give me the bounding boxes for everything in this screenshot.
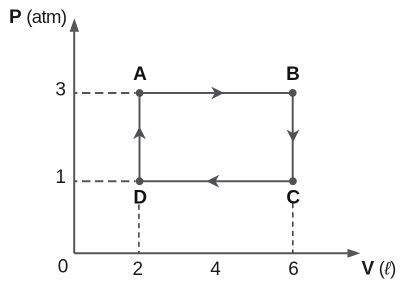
svg-text:P (atm): P (atm) <box>9 6 67 28</box>
svg-text:V (ℓ): V (ℓ) <box>362 259 396 280</box>
svg-text:A: A <box>133 64 147 85</box>
point A <box>136 89 144 97</box>
process line D to A <box>139 93 141 181</box>
svg-text:1: 1 <box>55 167 66 188</box>
svg-text:2: 2 <box>133 259 144 280</box>
process line C to D <box>140 180 293 182</box>
svg-text:3: 3 <box>55 80 66 101</box>
svg-text:C: C <box>286 188 300 209</box>
arrow A to B <box>211 87 224 100</box>
dashed guide V=2 <box>138 205 140 254</box>
svg-text:6: 6 <box>288 259 299 280</box>
point B <box>289 89 297 97</box>
point C <box>289 177 297 185</box>
svg-text:D: D <box>133 188 147 209</box>
svg-text:4: 4 <box>210 259 221 280</box>
point D <box>136 177 144 185</box>
y-axis <box>73 29 75 253</box>
svg-text:B: B <box>286 64 300 85</box>
process line B to C <box>292 93 294 181</box>
arrow C to D <box>207 175 220 188</box>
dashed guide P=3 <box>74 92 135 94</box>
dashed guide P=1 <box>74 180 135 182</box>
arrow B to C <box>287 130 300 143</box>
dashed guide V=6 <box>292 203 294 253</box>
arrow D to A <box>133 127 146 140</box>
x-axis <box>74 252 349 254</box>
x-axis arrowhead <box>348 249 361 258</box>
process line A to B <box>140 92 293 94</box>
y-axis arrowhead <box>70 18 80 32</box>
svg-text:0: 0 <box>58 257 69 278</box>
